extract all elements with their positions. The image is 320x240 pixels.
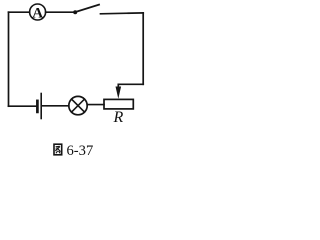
- wire lamp to rheostat: [87, 104, 104, 106]
- switch S1 pivot dot: [73, 10, 77, 14]
- wire to rheostat wiper: [118, 84, 143, 87]
- wire ammeter to switch: [46, 11, 74, 13]
- wire bottom left to battery: [9, 105, 37, 107]
- rheostat R body: [104, 99, 133, 109]
- label R: [113, 109, 124, 126]
- battery cell long plate (+): [40, 94, 42, 119]
- wire left vertical: [8, 12, 10, 106]
- svg-text:6-37: 6-37: [67, 143, 94, 159]
- svg-text:R: R: [113, 109, 124, 126]
- battery cell short plate (-): [36, 101, 39, 112]
- ammeter A1: [30, 4, 46, 21]
- wire battery to lamp: [42, 105, 69, 107]
- caption glyph 图: [54, 144, 62, 155]
- wire switch contact to top-right corner: [101, 12, 144, 15]
- wire right vertical: [142, 13, 144, 84]
- caption text 6-37: [67, 143, 94, 159]
- switch S1 lever (open): [76, 5, 100, 12]
- rheostat wiper arrow: [116, 87, 122, 99]
- svg-text:A: A: [32, 5, 43, 21]
- lamp L1: [69, 96, 87, 114]
- wire top left horizontal: [9, 11, 30, 13]
